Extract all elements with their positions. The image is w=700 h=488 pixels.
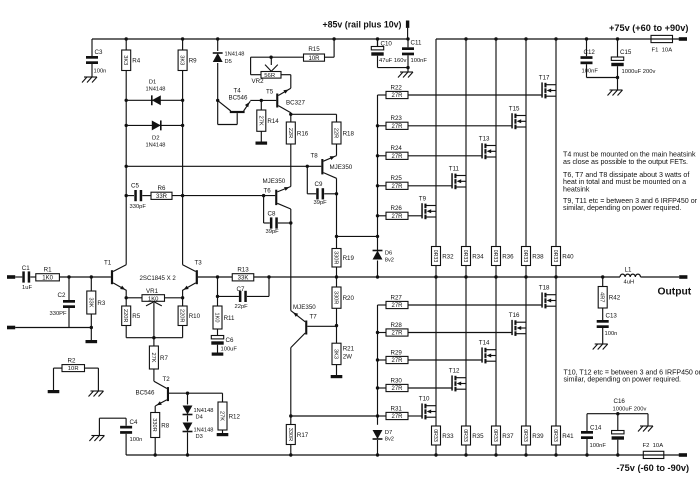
mosfet T12 (449, 368, 466, 392)
capacitor C2 (50, 275, 76, 327)
svg-text:R32: R32 (442, 253, 454, 260)
wire T8 collector (336, 178, 338, 248)
svg-text:T5: T5 (266, 89, 274, 96)
svg-text:R41: R41 (562, 433, 574, 440)
resistor R30 (378, 377, 452, 392)
wire source column 2 lower (465, 277, 467, 426)
svg-text:27K: 27K (219, 411, 225, 421)
svg-text:MJE350: MJE350 (263, 178, 286, 185)
wire source column 4 lower (525, 277, 527, 426)
svg-text:R29: R29 (391, 349, 403, 356)
svg-text:R10: R10 (189, 313, 201, 320)
svg-text:R35: R35 (472, 433, 484, 440)
svg-text:0R33: 0R33 (432, 429, 438, 442)
svg-text:27R: 27R (391, 124, 403, 130)
svg-text:T9: T9 (419, 196, 427, 203)
svg-text:D3: D3 (196, 434, 203, 440)
svg-text:T1: T1 (104, 260, 112, 267)
wire R5-R10 bottoms (126, 336, 182, 339)
svg-text:R22: R22 (391, 84, 403, 91)
note T4 heatsink (563, 151, 696, 166)
mosfet T17 (539, 75, 556, 99)
svg-text:1N4148: 1N4148 (225, 52, 245, 58)
svg-text:BC546: BC546 (136, 390, 155, 397)
resistor R31 (378, 405, 422, 420)
svg-text:27R: 27R (391, 154, 403, 160)
resistor R37 (492, 426, 515, 457)
resistor R7 (149, 338, 168, 382)
wire bottom bias feed (291, 415, 378, 417)
svg-text:C8: C8 (268, 211, 276, 218)
wire top bias feed (337, 235, 378, 237)
resistor R12 (188, 393, 241, 433)
capacitor C10 (371, 39, 408, 68)
svg-text:47uF 160v: 47uF 160v (379, 58, 406, 64)
svg-text:C6: C6 (226, 337, 234, 344)
resistor R24 (378, 145, 482, 160)
node +85v feed terminal (406, 21, 409, 28)
wire T3 collector column (182, 71, 184, 265)
svg-text:R19: R19 (343, 255, 355, 262)
resistor R6 (142, 185, 275, 200)
svg-text:0R33: 0R33 (462, 429, 468, 442)
ground below C3 (84, 76, 97, 78)
terminal input+ (7, 275, 15, 279)
svg-text:330PF: 330PF (50, 311, 68, 317)
svg-text:F1 10A: F1 10A (652, 47, 673, 53)
resistor R4 (122, 37, 141, 70)
terminal input- (7, 326, 15, 330)
svg-text:27R: 27R (391, 358, 403, 364)
ground below R3 (86, 340, 98, 343)
svg-text:0R33: 0R33 (462, 250, 468, 263)
transistor T5 (266, 75, 305, 113)
svg-text:100n: 100n (130, 437, 143, 443)
diode D5 (213, 37, 245, 100)
svg-text:D5: D5 (225, 59, 232, 65)
svg-text:T2: T2 (163, 376, 171, 383)
svg-text:0R33: 0R33 (492, 250, 498, 263)
svg-text:C12: C12 (584, 49, 596, 56)
svg-text:100n: 100n (94, 69, 107, 75)
svg-text:3K3: 3K3 (122, 55, 128, 65)
resistor R17 (286, 416, 309, 457)
transistor T1 (104, 260, 127, 298)
ground below R12 (217, 433, 229, 436)
svg-text:1uF: 1uF (22, 285, 32, 291)
svg-text:BC327: BC327 (286, 100, 305, 107)
svg-text:C1: C1 (22, 265, 30, 272)
capacitor C8 (262, 194, 293, 235)
wire T6 collector down (290, 209, 292, 311)
svg-text:27K: 27K (257, 116, 263, 126)
svg-text:1N4148: 1N4148 (194, 408, 214, 414)
fuse F1 (651, 35, 673, 53)
svg-text:R33: R33 (442, 433, 454, 440)
svg-text:T8: T8 (311, 153, 319, 160)
svg-text:R20: R20 (343, 295, 355, 302)
ground below C6 (212, 353, 224, 356)
svg-text:T12: T12 (449, 368, 460, 375)
svg-text:56R: 56R (264, 73, 275, 79)
ground below C15 (608, 78, 623, 96)
svg-text:27R: 27R (391, 303, 403, 309)
capacitor C16 (612, 398, 647, 457)
svg-text:T10: T10 (419, 396, 430, 403)
svg-text:VR2: VR2 (252, 78, 265, 85)
svg-text:R9: R9 (189, 58, 197, 65)
diode D4 (183, 392, 214, 421)
svg-text:C14: C14 (590, 425, 602, 432)
svg-text:D6: D6 (385, 251, 393, 257)
svg-text:R17: R17 (297, 432, 309, 439)
wire source column 3 lower (495, 277, 497, 426)
resistor R38 (522, 247, 545, 279)
resistor R22 (378, 84, 542, 99)
resistor R34 (462, 247, 485, 279)
svg-text:R13: R13 (237, 267, 249, 274)
note T9 T11 IRFP450 (563, 197, 698, 212)
resistor R16 (286, 122, 295, 144)
svg-text:0R33: 0R33 (552, 250, 558, 263)
resistor R18 (332, 122, 341, 144)
ground below C13 (595, 343, 608, 345)
wire -75v rail (126, 454, 679, 456)
mosfet T11 (449, 166, 466, 190)
resistor R1 (30, 267, 111, 282)
svg-text:R40: R40 (562, 253, 574, 260)
svg-text:R25: R25 (391, 175, 403, 182)
svg-text:39pF: 39pF (314, 200, 328, 206)
svg-text:39pF: 39pF (266, 229, 280, 235)
svg-text:D7: D7 (385, 430, 393, 436)
svg-text:+85v (rail plus 10v): +85v (rail plus 10v) (323, 20, 402, 30)
svg-text:27R: 27R (391, 414, 403, 420)
capacitor C5 (130, 183, 147, 211)
svg-text:R4: R4 (132, 58, 140, 65)
svg-text:2SC1845 X 2: 2SC1845 X 2 (140, 275, 177, 282)
svg-text:27R: 27R (391, 214, 403, 220)
svg-text:+75v (+60 to +90v): +75v (+60 to +90v) (609, 23, 688, 33)
wire source column 1 lower (435, 277, 437, 426)
svg-text:330R: 330R (287, 428, 293, 441)
svg-text:3K3: 3K3 (179, 55, 185, 65)
mosfet T10 (419, 396, 436, 420)
wire drain column 4 upper (524, 37, 527, 246)
svg-text:C10: C10 (381, 41, 393, 48)
svg-text:R38: R38 (532, 253, 544, 260)
svg-text:27R: 27R (391, 184, 403, 190)
svg-text:100n: 100n (605, 331, 618, 337)
resistor R21 (332, 343, 355, 375)
svg-text:1K0: 1K0 (214, 313, 220, 323)
svg-text:VR1: VR1 (146, 288, 159, 295)
capacitor C15 (587, 37, 656, 79)
svg-text:R28: R28 (391, 322, 403, 329)
svg-text:R16: R16 (297, 130, 309, 137)
mosfet T14 (479, 340, 496, 364)
svg-text:R15: R15 (308, 46, 320, 53)
svg-text:R37: R37 (502, 433, 514, 440)
svg-text:T3: T3 (195, 260, 203, 267)
svg-text:0R33: 0R33 (522, 429, 528, 442)
resistor R10 (178, 298, 201, 338)
svg-text:100nF: 100nF (590, 443, 607, 449)
svg-text:T4: T4 (234, 88, 242, 95)
wire T7 collector down (289, 348, 292, 418)
svg-text:R27: R27 (391, 294, 403, 301)
svg-text:C4: C4 (130, 419, 138, 426)
svg-text:4uH: 4uH (624, 280, 635, 286)
ground above C16 (638, 414, 653, 432)
wire C5-R6 line (125, 194, 185, 197)
resistor R13 (232, 267, 270, 282)
svg-text:330R: 330R (333, 291, 339, 304)
wire top gate column (376, 37, 379, 250)
resistor R20 (332, 277, 355, 343)
svg-text:R5: R5 (132, 313, 140, 320)
svg-text:T16: T16 (509, 312, 520, 319)
wire R8 bottom (154, 438, 157, 457)
svg-text:R3: R3 (97, 300, 105, 307)
ground below C10 C11 (398, 68, 413, 78)
svg-text:similar, depending on power re: similar, depending on power required. (563, 204, 681, 212)
terminal -75v (679, 453, 687, 457)
mosfet T9 (419, 196, 436, 220)
wire +85v rail (92, 38, 408, 40)
wire drain column 5 upper (554, 37, 557, 246)
svg-text:T11: T11 (449, 166, 460, 173)
svg-text:C2: C2 (58, 292, 66, 299)
resistor R2 (54, 358, 99, 392)
svg-text:330pF: 330pF (130, 204, 147, 210)
resistor R26 (378, 205, 422, 220)
wire T5 collector node (290, 113, 292, 122)
mosfet T15 (509, 106, 526, 130)
resistor R11 (213, 306, 222, 329)
mosfet T13 (479, 136, 496, 160)
svg-text:R12: R12 (229, 413, 241, 420)
transistor T4 (216, 88, 250, 125)
capacitor C4 (99, 418, 142, 455)
resistor R19 (332, 235, 355, 279)
svg-text:as close as possible to the ou: as close as possible to the output FETs. (563, 158, 688, 166)
svg-text:R14: R14 (267, 118, 279, 125)
svg-text:-75v (-60 to -90v): -75v (-60 to -90v) (617, 463, 690, 473)
svg-text:L1: L1 (625, 267, 632, 274)
resistor R23 (378, 115, 512, 130)
capacitor C11 (402, 37, 427, 69)
svg-text:1N4148: 1N4148 (146, 143, 166, 149)
ground C4 (91, 435, 104, 437)
svg-text:R18: R18 (343, 130, 355, 137)
wire T5 base (250, 99, 276, 101)
svg-text:D1: D1 (149, 80, 157, 86)
svg-text:27R: 27R (391, 93, 403, 99)
svg-text:C5: C5 (131, 183, 139, 190)
svg-text:D4: D4 (196, 414, 203, 420)
resistor R14 (257, 99, 280, 142)
svg-text:R8: R8 (161, 422, 169, 429)
svg-text:similar, depending on power re: similar, depending on power required. (564, 377, 682, 384)
svg-text:4R7: 4R7 (599, 292, 605, 302)
svg-text:1000uF 200v: 1000uF 200v (622, 69, 656, 75)
svg-text:330R: 330R (333, 251, 339, 264)
terminal output (679, 275, 687, 279)
svg-text:R26: R26 (391, 205, 403, 212)
svg-text:R6: R6 (158, 185, 166, 192)
svg-text:R42: R42 (609, 295, 621, 302)
svg-text:R34: R34 (472, 253, 484, 260)
svg-text:0R33: 0R33 (552, 429, 558, 442)
ground R2 right (91, 390, 104, 392)
svg-text:MJE350: MJE350 (330, 164, 353, 171)
inductor L1 (620, 267, 640, 286)
svg-text:0R33: 0R33 (432, 250, 438, 263)
svg-text:F2 10A: F2 10A (643, 443, 664, 449)
terminal +75v (679, 37, 687, 41)
svg-text:R21: R21 (343, 346, 355, 353)
capacitor C9 (306, 165, 339, 206)
svg-text:T17: T17 (539, 75, 550, 82)
fuse F2 (643, 443, 664, 459)
svg-text:C7: C7 (237, 286, 245, 293)
capacitor C12 (581, 37, 599, 77)
svg-text:R11: R11 (224, 315, 235, 322)
potentiometer VR2 (251, 56, 291, 86)
diode D7 zener (373, 430, 394, 457)
svg-text:C15: C15 (620, 49, 632, 56)
svg-text:R2: R2 (68, 358, 76, 365)
svg-text:330R: 330R (151, 418, 157, 431)
svg-text:R36: R36 (502, 253, 514, 260)
svg-text:1N4148: 1N4148 (194, 427, 214, 433)
svg-text:10R: 10R (68, 366, 79, 372)
resistor R29 (378, 349, 482, 364)
transistor T3 (182, 260, 217, 298)
svg-text:33R: 33R (156, 194, 168, 200)
svg-text:T15: T15 (509, 106, 520, 113)
svg-text:33K: 33K (87, 298, 93, 308)
svg-text:R7: R7 (160, 355, 168, 362)
resistor R28 (378, 322, 512, 337)
resistor R39 (522, 426, 545, 457)
diode D6 zener (373, 251, 394, 279)
svg-text:220R: 220R (122, 309, 128, 322)
resistor R27 (378, 294, 542, 309)
svg-text:T14: T14 (479, 340, 490, 347)
capacitor C6 (211, 329, 237, 353)
svg-text:R1: R1 (44, 267, 52, 274)
transistor T8 (311, 144, 353, 178)
svg-text:T13: T13 (479, 136, 490, 143)
svg-text:D2: D2 (152, 136, 160, 142)
resistor R15 (271, 37, 336, 62)
wire drain column 3 upper (494, 37, 497, 246)
svg-text:1N4148: 1N4148 (146, 87, 166, 93)
svg-text:C13: C13 (606, 313, 618, 320)
mosfet T16 (509, 312, 526, 336)
diode D2 (125, 120, 185, 148)
svg-text:10R: 10R (308, 56, 320, 62)
resistor R25 (378, 175, 452, 190)
svg-text:heatsink: heatsink (563, 185, 590, 193)
capacitor C3 (86, 39, 106, 77)
svg-text:2W: 2W (343, 353, 352, 360)
resistor R35 (462, 426, 485, 457)
svg-text:R23: R23 (391, 115, 403, 122)
resistor R40 (552, 247, 575, 279)
svg-text:100nF: 100nF (411, 58, 428, 64)
svg-text:Output: Output (658, 287, 692, 298)
svg-text:MJE350: MJE350 (293, 304, 316, 311)
resistor R8 (151, 413, 160, 438)
wire drain column 1 upper (435, 39, 437, 247)
diode D3 (183, 416, 214, 457)
svg-text:R24: R24 (391, 145, 403, 152)
svg-text:100uF: 100uF (221, 347, 238, 353)
resistor R9 (178, 37, 197, 70)
wire output bus (216, 275, 679, 278)
svg-text:22pF: 22pF (235, 304, 249, 310)
svg-text:0R33: 0R33 (522, 250, 528, 263)
resistor R33 (432, 426, 455, 457)
wire input shield (15, 327, 91, 329)
ground below R21 (331, 375, 343, 378)
svg-text:R30: R30 (391, 377, 403, 384)
transistor T6 (263, 144, 291, 209)
ground R2 left (48, 390, 60, 393)
svg-text:27R: 27R (391, 331, 403, 337)
svg-text:22R: 22R (287, 128, 293, 138)
wire bottom gate column (376, 305, 379, 425)
mosfet T18 (539, 285, 556, 309)
wire +75v rail (436, 38, 680, 40)
svg-text:T10, T12 etc = between 3 and 6: T10, T12 etc = between 3 and 6 IRFP450 o… (564, 369, 700, 376)
svg-text:100nF: 100nF (582, 68, 599, 74)
resistor R3 (87, 275, 106, 340)
svg-text:T7: T7 (310, 314, 318, 321)
wire T1 collector column (125, 71, 127, 265)
diode D1 (125, 80, 185, 106)
svg-text:R39: R39 (532, 433, 544, 440)
transistor T2 (136, 376, 188, 413)
note T6 T7 T8 dissipation (563, 171, 689, 194)
svg-text:C16: C16 (614, 398, 626, 405)
capacitor C7 (216, 277, 269, 310)
wire T8 base line (125, 165, 322, 168)
resistor R5 (122, 298, 141, 338)
svg-text:27K: 27K (150, 353, 156, 363)
svg-text:1K0: 1K0 (42, 276, 53, 282)
svg-text:27R: 27R (391, 386, 403, 392)
resistor R41 (552, 426, 575, 457)
svg-text:0R33: 0R33 (492, 429, 498, 442)
svg-text:BC546: BC546 (229, 95, 248, 102)
svg-text:C11: C11 (411, 40, 422, 47)
svg-text:33K: 33K (238, 276, 249, 282)
capacitor C13 (597, 313, 618, 345)
svg-text:3K3: 3K3 (333, 349, 339, 359)
svg-text:T6: T6 (264, 188, 272, 195)
svg-text:C3: C3 (95, 49, 103, 56)
svg-text:1000uF 200v: 1000uF 200v (613, 406, 647, 412)
svg-text:8v2: 8v2 (385, 257, 394, 263)
capacitor C14 (581, 414, 648, 457)
capacitor C1 (15, 265, 32, 291)
transistor T7 (291, 304, 337, 348)
wire source column 5 lower (555, 277, 557, 426)
